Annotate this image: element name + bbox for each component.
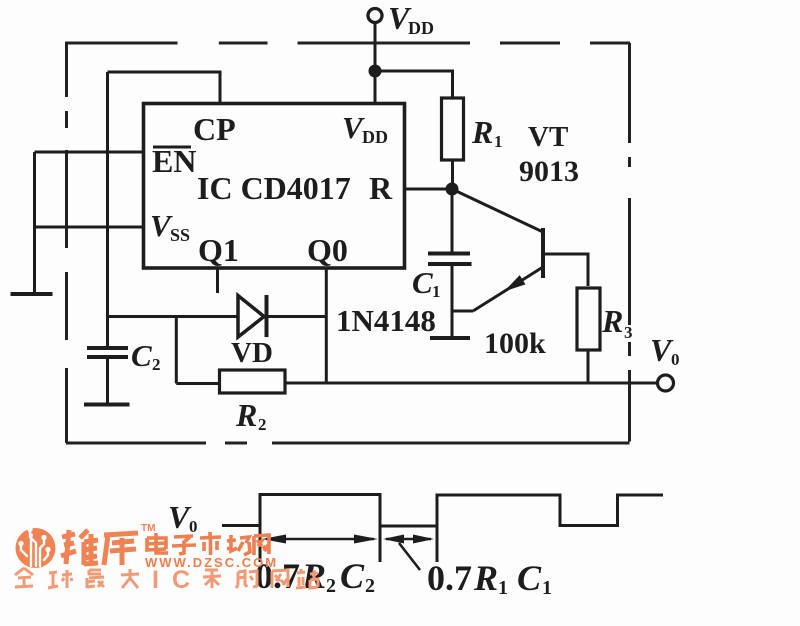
dashed enclosure border bottom — [66, 442, 630, 445]
svg-text:CP: CP — [193, 111, 236, 147]
wire C2 bottom — [106, 357, 109, 404]
wire Q0 down — [325, 268, 328, 383]
transistor VT collector wire — [543, 254, 588, 286]
watermark slogan 购 — [236, 571, 257, 588]
resistor R2 — [220, 370, 286, 393]
watermark 网 — [254, 535, 269, 555]
diode VD wire left — [108, 315, 239, 318]
wire CP to C2 vertical — [106, 72, 109, 348]
svg-text:0.7: 0.7 — [427, 558, 472, 598]
watermark logo circle — [16, 527, 56, 568]
wire R3 bottom — [587, 350, 590, 383]
watermark 子 — [172, 536, 196, 554]
wire C1 bottom — [451, 264, 454, 337]
svg-text:TM: TM — [141, 523, 155, 534]
transistor VT emitter wire with arrow — [473, 267, 543, 311]
svg-text:R: R — [235, 397, 257, 433]
transistor VT 9013 base wire — [454, 190, 543, 232]
svg-text:Q0: Q0 — [307, 232, 348, 268]
svg-text:R: R — [601, 303, 623, 339]
svg-text:R: R — [473, 558, 498, 598]
transistor VT base bar — [541, 228, 545, 278]
watermark 场 — [227, 535, 250, 555]
svg-text:DD: DD — [362, 127, 388, 147]
junction dot VDD node — [369, 65, 382, 78]
watermark slogan 最 — [87, 570, 104, 588]
svg-text:DD: DD — [408, 18, 434, 38]
svg-text:100k: 100k — [484, 327, 546, 360]
watermark slogan 球 — [48, 570, 72, 588]
svg-text:VD: VD — [231, 337, 273, 369]
svg-text:C: C — [131, 338, 152, 373]
wire diode node to R2 — [175, 317, 178, 384]
capacitor C2 — [87, 346, 128, 350]
watermark slogan 站 — [296, 569, 318, 588]
svg-text:R: R — [369, 170, 393, 206]
watermark 库 — [104, 533, 138, 565]
resistor R1 — [442, 98, 464, 160]
svg-text:C: C — [172, 566, 190, 594]
ground C2 — [84, 403, 130, 407]
watermark 市 — [200, 532, 221, 555]
wire CP pin top — [108, 72, 221, 104]
ground C1/emitter — [430, 336, 470, 340]
dashed enclosure border left — [65, 43, 68, 443]
watermark slogan 网 — [272, 570, 288, 588]
svg-text:2: 2 — [152, 355, 161, 374]
wire R pin — [405, 188, 453, 191]
svg-text:R: R — [471, 114, 493, 150]
dashed enclosure border right — [628, 43, 631, 442]
svg-text:2: 2 — [258, 415, 267, 434]
wire R1 bottom to node — [451, 160, 454, 189]
leader line — [399, 543, 420, 570]
wire Q1 stub — [216, 268, 219, 293]
svg-text:1: 1 — [542, 577, 552, 599]
wire node to C1 — [451, 189, 454, 253]
terminal VDD — [368, 9, 382, 23]
IC U1 box CD4017 — [144, 104, 405, 269]
wire VSS pin — [35, 226, 144, 229]
watermark 电 — [147, 533, 168, 553]
diode VD — [238, 296, 264, 338]
wire EN/VSS to ground — [33, 152, 36, 294]
svg-text:C: C — [340, 556, 365, 596]
waveform dimension extension lines — [259, 526, 262, 563]
watermark slogan 全 — [15, 568, 33, 587]
resistor R3 — [577, 288, 600, 350]
svg-text:1: 1 — [494, 132, 503, 151]
wire VDD vertical — [374, 22, 377, 104]
wire R2 left — [176, 382, 219, 385]
dashed enclosure border top — [65, 42, 630, 45]
svg-text:1: 1 — [432, 282, 441, 301]
svg-text:IC CD4017: IC CD4017 — [197, 170, 351, 206]
svg-text:1: 1 — [498, 577, 508, 599]
waveform trace — [222, 495, 663, 527]
dimension arrow 0.7R2C2 — [266, 538, 374, 540]
svg-text:3: 3 — [624, 323, 633, 342]
terminal V0 — [658, 375, 674, 391]
watermark slogan 采 — [203, 570, 221, 588]
svg-text:1N4148: 1N4148 — [336, 303, 436, 338]
svg-text:C: C — [517, 558, 542, 598]
watermark slogan 大 — [121, 569, 139, 588]
junction dot R node — [446, 183, 459, 196]
capacitor C1 — [428, 252, 470, 256]
svg-text:9013: 9013 — [519, 155, 579, 188]
ground left — [11, 292, 53, 296]
svg-text:VT: VT — [528, 121, 568, 153]
watermark 维 — [61, 530, 98, 565]
svg-text:WWW.DZSC.COM: WWW.DZSC.COM — [145, 555, 278, 570]
svg-text:2: 2 — [365, 575, 375, 597]
wire EN pin — [35, 151, 144, 154]
svg-text:0: 0 — [189, 517, 198, 536]
dimension arrow 0.7R1C1 — [386, 538, 431, 540]
wire VDD to R1 — [375, 71, 453, 98]
svg-text:Q1: Q1 — [198, 232, 239, 268]
diode VD wire right — [266, 315, 326, 318]
wire output line — [285, 382, 658, 385]
svg-text:2: 2 — [326, 575, 336, 597]
svg-text:I: I — [152, 566, 159, 594]
svg-text:SS: SS — [170, 225, 190, 245]
svg-text:C: C — [412, 265, 433, 300]
svg-text:0: 0 — [671, 350, 680, 369]
